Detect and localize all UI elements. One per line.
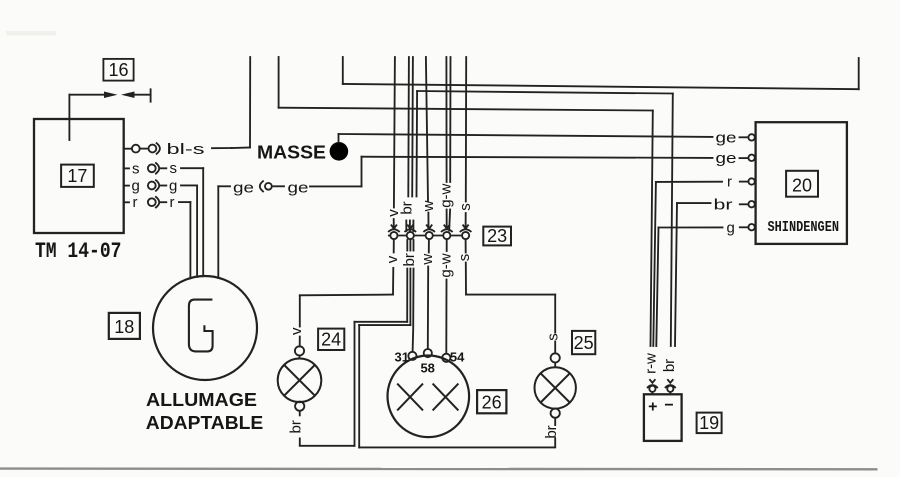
terminal br box20 — [748, 201, 754, 207]
connector 23 bullet g-w — [443, 232, 450, 239]
wire bus second (to battery minus) — [417, 91, 673, 94]
label box 24 — [318, 329, 344, 350]
wire br corner left upper — [355, 321, 408, 323]
page edge line bottom — [0, 467, 878, 470]
wire box17 row3 g — [124, 185, 129, 187]
connector 16 wire into box 17 — [68, 95, 70, 140]
wire row3 g drop to generator — [196, 185, 198, 276]
connector ge dash — [274, 185, 285, 187]
wire w below connector to 58 — [428, 240, 430, 253]
terminal 31 — [408, 352, 416, 360]
svg-text:23: 23 — [487, 226, 507, 246]
svg-text:br: br — [401, 253, 418, 266]
svg-text:17: 17 — [67, 166, 87, 186]
svg-text:br: br — [661, 359, 678, 372]
battery connector minus — [665, 379, 676, 388]
wire br pair from top — [407, 57, 410, 197]
terminal 58 — [424, 349, 432, 357]
wire battery feed from second bus — [671, 94, 673, 347]
battery 19 — [644, 394, 682, 441]
svg-text:s: s — [132, 160, 140, 177]
connector circle row4 — [148, 198, 156, 206]
wire g-w below connector to 54 — [446, 240, 448, 251]
svg-text:s: s — [456, 254, 473, 262]
wire stub top right — [858, 58, 860, 89]
svg-text:r-w: r-w — [643, 353, 660, 374]
wire lamp24 bottom with br label — [299, 411, 301, 446]
svg-text:54: 54 — [450, 349, 465, 364]
wire ge generator stub — [218, 185, 230, 187]
node MASSE ground dot — [330, 142, 349, 161]
wire v below connector — [393, 240, 395, 253]
connector row 23 line — [389, 235, 468, 237]
svg-text:26: 26 — [482, 392, 502, 412]
wire v corner to lamp24 — [300, 294, 393, 297]
svg-text:br: br — [714, 196, 733, 213]
wire from MASSE dot up — [338, 134, 340, 142]
svg-text:br: br — [543, 425, 560, 438]
connector circle row1 a — [132, 145, 140, 153]
svg-text:16: 16 — [108, 60, 128, 80]
svg-text:20: 20 — [792, 175, 812, 195]
terminal dashes — [740, 181, 749, 183]
wire ge2 riser — [361, 157, 363, 187]
connector circle row1 b — [149, 145, 157, 153]
connector 16 separation symbol right line — [134, 94, 151, 96]
wire ge to riser — [310, 185, 362, 187]
svg-text:ADAPTABLE: ADAPTABLE — [146, 412, 263, 433]
battery connector plus — [647, 379, 658, 388]
label box 17 — [61, 165, 94, 187]
wire stub to top edge (bus to battery plus) — [278, 57, 280, 108]
wire box17 row1 bl-s: stub, bullet connectors — [124, 148, 131, 150]
label box 16 — [103, 59, 133, 81]
svg-text:bl-s: bl-s — [167, 141, 205, 158]
generator G glyph — [189, 300, 213, 352]
wire g from regulator — [659, 226, 723, 228]
wire ge2 to regulator — [362, 157, 713, 158]
wire br from regulator — [677, 202, 711, 204]
connector 23 bullet symbols — [388, 225, 471, 232]
svg-text:s: s — [545, 333, 562, 341]
wire v from top — [394, 57, 395, 208]
svg-text:TM 14-07: TM 14-07 — [35, 239, 122, 264]
regulator box 20 SHINDENGEN — [756, 122, 847, 244]
connector 16 terminal bar — [150, 89, 152, 101]
svg-text:+: + — [648, 399, 657, 416]
filament X right — [433, 384, 459, 411]
wire ge1 MASSE to regulator — [339, 134, 713, 137]
svg-text:18: 18 — [114, 317, 134, 337]
wire third br from bus — [416, 91, 419, 197]
svg-text:r: r — [170, 194, 175, 211]
wire s below connector — [465, 240, 467, 253]
connector 16 separation symbol left line — [69, 94, 105, 96]
generator G circle 18 — [153, 276, 257, 380]
wire v resume to connector — [393, 219, 395, 228]
scan smudge top left — [6, 31, 56, 36]
terminal ge1 box20 — [748, 134, 754, 140]
connector circle ge — [265, 183, 272, 190]
wire s corner to lamp25 — [466, 294, 555, 296]
wire lamp24 top riser — [299, 295, 301, 326]
terminal 54 — [442, 354, 450, 362]
lamp25 bottom terminal — [551, 409, 560, 418]
wire bus upper-left to right (w feed to battery plus) — [279, 108, 653, 111]
wire lamp25 top riser — [554, 295, 556, 333]
connector 16 arrowhead left — [121, 92, 135, 99]
wire lamp24 bottom horizontal — [300, 445, 355, 447]
svg-text:MASSE: MASSE — [257, 143, 326, 163]
svg-text:58: 58 — [420, 360, 434, 375]
svg-text:31: 31 — [395, 349, 409, 364]
svg-text:r: r — [133, 194, 138, 211]
wire row2 s drop to generator — [202, 168, 204, 276]
connector 23 bullet br — [407, 232, 414, 239]
label box 18 — [109, 313, 140, 339]
connector circle row2 — [148, 164, 156, 172]
wire ge drop to generator — [217, 186, 219, 278]
svg-text:r: r — [727, 174, 732, 191]
svg-text:g: g — [132, 178, 140, 195]
wire battery feed from upper bus — [651, 111, 653, 347]
wire s from top — [465, 57, 467, 202]
wire g-w pair from top — [445, 57, 447, 182]
wire long top bus — [343, 84, 859, 89]
svg-text:ALLUMAGE: ALLUMAGE — [146, 389, 257, 410]
connector 23 bullet s — [462, 232, 469, 239]
wire br stubs to connector — [405, 221, 407, 232]
svg-text:br: br — [287, 420, 304, 433]
svg-text:g-w: g-w — [437, 183, 454, 207]
connector circle row3 — [148, 182, 156, 190]
svg-text:ge: ge — [288, 179, 309, 196]
svg-text:g: g — [169, 177, 177, 194]
svg-text:v: v — [288, 327, 305, 335]
svg-text:ge: ge — [233, 179, 254, 196]
svg-text:s: s — [457, 203, 474, 211]
label box 25 — [572, 331, 595, 354]
wire br triple below connector — [406, 240, 408, 251]
wire box17 row4 r — [124, 201, 129, 203]
terminal ge2 box20 — [748, 155, 754, 161]
label box 19 — [697, 413, 722, 434]
wire box17 row2 s — [124, 167, 129, 169]
wire row1 corner link — [232, 147, 251, 150]
label box 26 — [477, 390, 506, 413]
lamp24 top terminal — [295, 346, 304, 355]
connector 16 arrowhead right — [104, 92, 118, 99]
connector 23 bullet v — [390, 232, 397, 239]
wire r from regulator — [656, 181, 722, 183]
svg-text:−: − — [664, 397, 673, 414]
connector ge arc — [260, 181, 263, 191]
svg-text:w: w — [420, 200, 437, 212]
svg-text:v: v — [384, 255, 401, 263]
svg-text:ge: ge — [716, 129, 737, 146]
headlamp 26 — [388, 356, 470, 438]
svg-text:19: 19 — [699, 413, 719, 433]
wire stub bl-s riser to top edge — [249, 57, 251, 148]
CDI unit box 17 — [34, 119, 124, 233]
svg-text:br: br — [398, 201, 415, 214]
svg-text:s: s — [170, 160, 178, 177]
svg-text:24: 24 — [321, 330, 341, 350]
svg-text:g-w: g-w — [438, 253, 455, 277]
wire ground bus to lamp25 — [359, 446, 555, 448]
wire stub to top edge (long top bus) — [342, 57, 344, 84]
connector 23 bullet w — [426, 232, 433, 239]
terminal r box20 — [748, 178, 754, 184]
svg-text:ge: ge — [716, 150, 737, 167]
wire br corner left lower — [359, 324, 410, 326]
svg-text:25: 25 — [574, 333, 594, 353]
wire w from top — [426, 57, 428, 201]
lamp24 bottom terminal — [295, 402, 304, 411]
svg-text:SHINDENGEN: SHINDENGEN — [768, 219, 840, 236]
wire row4 r drop to generator — [189, 202, 191, 278]
svg-text:w: w — [419, 254, 436, 266]
terminal g box20 — [748, 224, 754, 230]
lamp25 top terminal — [551, 353, 560, 362]
svg-text:g: g — [727, 220, 735, 237]
wire lamp25 bottom with br label — [554, 418, 556, 448]
filament X left — [397, 384, 423, 411]
label box 23 — [483, 227, 511, 246]
